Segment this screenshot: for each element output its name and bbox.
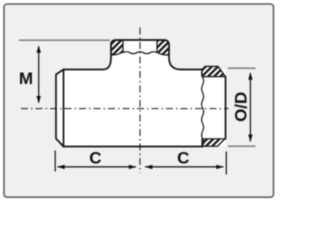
svg-text:M: M: [19, 69, 33, 88]
svg-text:C: C: [89, 149, 101, 168]
svg-text:C: C: [177, 149, 189, 168]
svg-text:O/D: O/D: [232, 92, 251, 122]
